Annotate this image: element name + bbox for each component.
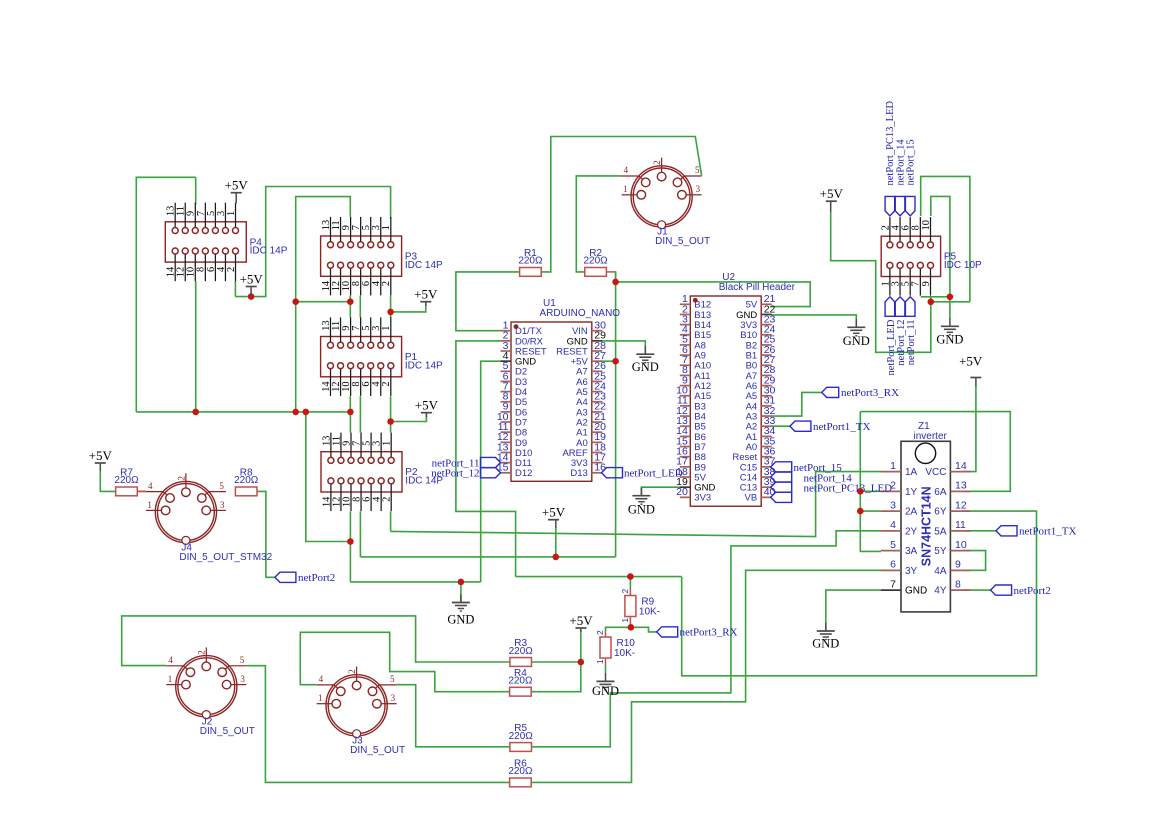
svg-text:3: 3	[696, 184, 701, 194]
wire R10 bottom	[605, 665, 607, 674]
svg-text:220Ω: 220Ω	[508, 766, 533, 777]
wire R9 bottom junction	[629, 624, 631, 628]
junction at 295.7,411.9	[292, 409, 299, 416]
svg-text:4Y: 4Y	[934, 586, 947, 597]
resistor R6	[508, 759, 533, 787]
+5V below U1 stem	[555, 520, 557, 528]
svg-text:netPort1_TX: netPort1_TX	[1019, 526, 1076, 538]
wire R2 left to J1 pin4	[576, 176, 621, 272]
wire to netPort3_RX flag	[631, 627, 657, 632]
svg-text:+5V: +5V	[820, 186, 844, 201]
svg-text:5Y: 5Y	[934, 546, 947, 557]
svg-text:6A: 6A	[934, 487, 947, 498]
svg-text:6: 6	[890, 559, 896, 571]
junction at 350.4,541.5	[347, 538, 354, 545]
ground (left rail)	[447, 594, 474, 626]
wire rail-down leg	[306, 412, 351, 542]
resistor R7	[114, 468, 139, 496]
svg-text:DIN_5_OUT: DIN_5_OUT	[655, 236, 710, 247]
+5V below P4	[240, 271, 264, 286]
net flag netPort_14 at U2 pin38	[771, 472, 792, 482]
wire P5 pin8 riser	[921, 176, 970, 301]
svg-text:GND: GND	[843, 334, 870, 348]
net flag P5 bottom pin 3	[895, 297, 905, 317]
svg-text:10: 10	[955, 539, 967, 551]
svg-text:netPort2: netPort2	[298, 572, 335, 584]
svg-text:2: 2	[595, 630, 605, 635]
junction at 350.4,411.9	[347, 409, 354, 416]
svg-text:5: 5	[890, 539, 896, 551]
connector P1 IDC 14P	[321, 317, 443, 396]
svg-text:1: 1	[381, 326, 392, 331]
junction at 460.9,581.9	[458, 579, 465, 586]
svg-text:2: 2	[382, 497, 393, 502]
svg-text:netPort_PC13_LED: netPort_PC13_LED	[804, 483, 893, 495]
svg-text:netPort_12: netPort_12	[431, 468, 479, 480]
+5V above P4 stem	[235, 194, 237, 204]
net flag netPort2 at J4	[275, 572, 296, 582]
+5V at P3	[414, 287, 438, 302]
wire P4 pin2 down	[234, 281, 236, 297]
resistor lead R7 right	[138, 490, 146, 492]
svg-text:D12: D12	[515, 468, 532, 479]
svg-text:3: 3	[890, 499, 896, 511]
wire P4 pin10 to rail	[195, 281, 197, 412]
+5V at R7 stem	[99, 464, 101, 471]
wire netPort3_RX rail	[516, 576, 682, 578]
net flag at U2 pin40	[771, 492, 792, 502]
svg-text:4: 4	[890, 519, 896, 531]
wire netPort3_RX loop right	[682, 511, 1037, 676]
resistor R2	[584, 248, 609, 276]
junction at 630.4,576.6	[627, 573, 634, 580]
wire P2 pin8 +5V leg	[359, 511, 361, 557]
resistor R3	[509, 638, 534, 666]
svg-text:12: 12	[955, 499, 967, 511]
wire U2 pin19 GND	[641, 487, 681, 496]
connector P3 IDC 14P	[321, 217, 443, 296]
svg-text:+5V: +5V	[225, 178, 249, 193]
svg-text:2Y: 2Y	[905, 526, 918, 537]
svg-text:DIN_5_OUT: DIN_5_OUT	[350, 745, 405, 756]
svg-text:11: 11	[955, 519, 966, 531]
svg-text:1: 1	[890, 460, 896, 472]
connector P5 IDC 10P	[880, 217, 982, 296]
svg-text:+5V: +5V	[414, 287, 438, 302]
svg-text:3Y: 3Y	[905, 566, 918, 577]
IC U1 ARDUINO_NANO	[497, 298, 620, 482]
resistor R1	[518, 248, 543, 276]
wire +5V tap P3	[391, 304, 426, 312]
junction at 195.7,411.9	[192, 409, 199, 416]
svg-text:VB: VB	[745, 493, 758, 504]
svg-text:20: 20	[676, 486, 688, 498]
svg-text:2A: 2A	[905, 507, 918, 518]
wire netPC13 top loop	[860, 412, 1010, 492]
junction at 295.7,301.7	[292, 298, 299, 305]
wire Z1 5A to netPort1_TX	[964, 530, 997, 532]
net flag netPort_12 at U1 pin15	[481, 468, 501, 478]
junction at 390.6,421.5	[387, 418, 394, 425]
net flag netPort3_RX at R9	[657, 627, 678, 637]
svg-text:inverter: inverter	[914, 431, 948, 442]
wire +5V riser right of U1	[615, 273, 617, 557]
wire P4 pin9 stub riser	[195, 177, 197, 204]
svg-text:Black Pill Header: Black Pill Header	[719, 282, 796, 293]
svg-text:1: 1	[595, 659, 605, 664]
svg-text:DIN_5_OUT_STM32: DIN_5_OUT_STM32	[179, 552, 272, 563]
junction at 630.9,627.3	[628, 624, 635, 631]
svg-text:3: 3	[220, 500, 225, 510]
svg-text:1: 1	[147, 500, 152, 510]
wire P3 pin8 to P1 pin7	[359, 296, 361, 318]
svg-text:5: 5	[240, 655, 245, 665]
+5V above P4	[225, 178, 249, 193]
IC Z1 inverter SN74HCT14N	[881, 421, 970, 612]
wire J2 pin4 to R3	[122, 616, 510, 666]
wire P1 pin8 to P2 pin7	[359, 396, 361, 432]
wire P2 pin9 from rail	[349, 412, 351, 433]
wire R8 to netPort2	[257, 491, 275, 577]
ground Z1 pin7	[812, 623, 839, 651]
resistor lead R2 right	[606, 271, 614, 273]
wire P5 pin9 net	[931, 297, 970, 302]
junction at 615.6,281.9	[612, 279, 619, 286]
svg-text:4: 4	[168, 655, 173, 665]
wire long diagonal net	[391, 472, 881, 537]
svg-text:1: 1	[382, 441, 393, 446]
+5V above Z1	[959, 354, 983, 369]
svg-text:3A: 3A	[905, 546, 918, 557]
svg-text:GND: GND	[936, 333, 963, 347]
wire R7 to J4 pin4	[138, 490, 146, 492]
svg-text:GND: GND	[812, 637, 839, 651]
svg-text:220Ω: 220Ω	[114, 475, 139, 486]
wire J3 pin5 to R5	[397, 685, 510, 747]
svg-text:10K-: 10K-	[639, 607, 660, 618]
svg-text:GND: GND	[592, 684, 619, 698]
wire rail GND-row	[136, 411, 350, 413]
wire +5V to R7	[100, 471, 115, 492]
+5V below U1	[542, 505, 566, 520]
resistor lead R9 bottom	[629, 617, 631, 624]
svg-text:ARDUINO_NANO: ARDUINO_NANO	[540, 308, 621, 319]
svg-text:netPort_15: netPort_15	[906, 139, 917, 185]
svg-text:5: 5	[390, 674, 395, 684]
IC U2 Black Pill Header	[676, 272, 796, 506]
+5V at P1 stem	[425, 413, 427, 417]
wire P3 pin2 to P1 pin1	[390, 296, 392, 318]
svg-text:1: 1	[620, 618, 630, 623]
svg-text:VCC: VCC	[925, 467, 946, 478]
svg-text:2: 2	[226, 267, 237, 272]
svg-text:DIN_5_OUT: DIN_5_OUT	[200, 726, 255, 737]
wire P5 GND stem	[949, 297, 951, 319]
svg-text:4A: 4A	[934, 566, 947, 577]
wire U2 pin22 GND	[771, 315, 856, 327]
wire GND leg down	[349, 542, 351, 582]
svg-text:7: 7	[890, 578, 896, 590]
wire +5V stem under U1	[555, 528, 557, 557]
wire lateral P3-P1	[296, 301, 351, 303]
svg-text:1: 1	[381, 225, 392, 230]
svg-text:2: 2	[176, 476, 186, 481]
wire P5 pin7 to GND	[921, 296, 950, 298]
connector J4 DIN_5_OUT_STM32	[146, 473, 273, 563]
junction at 251.1,296.6	[248, 293, 255, 300]
svg-text:4: 4	[148, 481, 153, 491]
+5V at R3	[569, 613, 593, 628]
svg-text:5: 5	[695, 165, 700, 175]
wire Z1 VCC +5V	[964, 386, 976, 472]
wire U1 pin4 GND	[481, 361, 501, 582]
+5V at P1	[415, 398, 439, 413]
resistor R10	[595, 630, 635, 664]
wire R6 left to J2 pin5	[246, 666, 510, 783]
svg-text:5: 5	[219, 481, 224, 491]
svg-text:GND: GND	[632, 360, 659, 374]
resistor lead R10 top	[605, 632, 607, 638]
svg-text:220Ω: 220Ω	[234, 475, 259, 486]
svg-text:netPort3_RX: netPort3_RX	[680, 627, 738, 639]
connector P2 IDC 14P	[321, 433, 443, 512]
ground R10	[592, 673, 619, 698]
wire +5V row under U1	[360, 556, 615, 558]
svg-text:U2: U2	[722, 272, 735, 283]
svg-text:16: 16	[594, 462, 606, 474]
wire U2 A3 to netPort3_RX	[771, 392, 822, 416]
wire P5 pin10 riser	[931, 196, 950, 296]
net flag P5 top pin 2	[885, 196, 895, 216]
wire Z1 4Y to netPort2	[964, 589, 991, 591]
svg-text:3V3: 3V3	[694, 493, 711, 504]
wire P2 pin10 down	[349, 511, 351, 541]
svg-text:1A: 1A	[905, 467, 918, 478]
wire R6 to Z1 3Y	[531, 570, 881, 782]
connector J1 DIN_5_OUT	[622, 158, 711, 248]
resistor R8	[234, 468, 259, 496]
svg-text:GND: GND	[905, 586, 927, 597]
connector J2 DIN_5_OUT	[166, 647, 255, 737]
wire R3 to R4 right	[531, 662, 581, 692]
net flag netPort1_TX at U2 A2	[790, 421, 811, 431]
junction at 580.8,662	[578, 659, 585, 666]
wire +5V tap P1	[391, 415, 427, 422]
+5V at P5 stem	[830, 202, 832, 212]
svg-text:8: 8	[955, 578, 961, 590]
svg-text:10: 10	[921, 220, 932, 230]
junction at 860.3,511.1	[857, 508, 864, 515]
svg-text:1Y: 1Y	[905, 487, 918, 498]
+5V above Z1 stem	[975, 378, 977, 387]
svg-text:+5V: +5V	[542, 505, 566, 520]
net flag netPort_11 at U1 pin14	[481, 457, 501, 467]
svg-text:netPort_11: netPort_11	[906, 320, 917, 366]
svg-text:1: 1	[226, 211, 237, 216]
wire U1 pin2 net	[456, 341, 516, 577]
svg-text:GND: GND	[447, 613, 474, 627]
svg-text:2: 2	[381, 382, 392, 387]
wire R9 to R10	[606, 627, 631, 631]
svg-text:2: 2	[381, 281, 392, 286]
net flag netPort3_RX at U2 A3	[822, 387, 839, 397]
ground P5	[936, 318, 963, 346]
svg-text:2: 2	[652, 160, 662, 165]
net flag P5 bottom pin 1	[885, 297, 895, 317]
svg-text:15: 15	[497, 462, 509, 474]
net flag P5 bottom pin 5	[905, 297, 915, 317]
junction at 390.6,311.9	[387, 309, 394, 316]
junction at 860.3,491.3	[857, 488, 864, 495]
wire R4 left to J3 pin4	[300, 632, 509, 691]
svg-text:3: 3	[240, 674, 245, 684]
junction at 350.3,301.7	[347, 298, 354, 305]
wire Z1 pin7 GND	[826, 590, 881, 631]
wire P3 pin9 up-left	[296, 197, 351, 412]
svg-text:10K-: 10K-	[614, 648, 635, 659]
+5V at R7	[89, 448, 113, 463]
svg-text:2: 2	[347, 669, 357, 674]
wire Z1 5Y to 4A	[964, 551, 986, 571]
svg-text:+5V: +5V	[89, 448, 113, 463]
net flag netPort_15 at U2 pin37	[771, 462, 792, 472]
svg-text:220Ω: 220Ω	[584, 256, 609, 267]
net flag P5 top pin 4	[895, 196, 905, 216]
svg-text:U1: U1	[543, 298, 556, 309]
svg-text:4: 4	[624, 165, 629, 175]
resistor R9	[620, 589, 660, 623]
wire U2 A2 to netPort1_TX	[771, 425, 790, 427]
junction at 949.9,296.8	[947, 294, 954, 301]
svg-text:netPort3_RX: netPort3_RX	[841, 387, 899, 399]
net flag netPort2 at Z1 4Y	[991, 585, 1012, 595]
connector P4 IDC 14P	[165, 203, 287, 282]
svg-text:2: 2	[197, 650, 207, 655]
net flag netPort_PC13_LED at U2 pin39	[771, 482, 792, 492]
resistor lead R9 top	[629, 588, 631, 596]
wire GND rail bottom	[350, 581, 480, 583]
wire +5V stem R3	[580, 630, 582, 662]
wire R1 to J1 pin5	[542, 137, 702, 272]
wire R9 top lead	[629, 577, 631, 588]
svg-text:9: 9	[955, 559, 961, 571]
junction at 615.6,361.2	[612, 358, 619, 365]
net flag netPort_LED at U1 pin16	[602, 468, 623, 478]
wire R2 to U2 5V	[615, 272, 810, 307]
wire U1 pin29 GND	[602, 341, 646, 354]
svg-text:+5V: +5V	[240, 271, 264, 286]
connector J3 DIN_5_OUT	[317, 667, 406, 757]
wire P3 pin10 to P1 pin9	[349, 296, 351, 318]
+5V above Z1 bar	[970, 377, 981, 379]
+5V at R3 stem	[580, 629, 582, 632]
svg-text:netPort1_TX: netPort1_TX	[813, 421, 870, 433]
svg-text:GND: GND	[628, 503, 655, 517]
resistor R4	[508, 668, 533, 696]
svg-text:6Y: 6Y	[934, 507, 947, 518]
svg-text:2: 2	[620, 589, 630, 594]
+5V at P5	[820, 186, 844, 201]
svg-text:IDC 14P: IDC 14P	[405, 260, 443, 271]
wire R3 right +5V	[532, 661, 581, 663]
svg-text:SN74HCT14N: SN74HCT14N	[920, 486, 934, 566]
junction at 555.8,556.9	[553, 554, 560, 561]
svg-text:14: 14	[955, 460, 967, 472]
wire P2 pin2 down	[390, 511, 392, 531]
svg-text:netPort_LED: netPort_LED	[624, 468, 683, 480]
wire P1 pin2 to P2 pin1	[390, 396, 392, 432]
wire Z1 1Y	[860, 490, 881, 492]
wire Z1 2A	[860, 510, 881, 512]
net flag P5 top pin 6	[905, 196, 915, 216]
svg-text:netPort2: netPort2	[1014, 585, 1051, 597]
svg-text:40: 40	[764, 486, 776, 498]
svg-text:1: 1	[318, 693, 323, 703]
svg-text:+5V: +5V	[415, 398, 439, 413]
svg-text:220Ω: 220Ω	[518, 256, 543, 267]
wire netPC13 vertical	[860, 412, 881, 552]
junction at 930.8,301.8	[928, 299, 935, 306]
ground U1 pin29	[632, 346, 659, 374]
svg-text:IDC 14P: IDC 14P	[250, 246, 288, 257]
wire +5V to P5	[831, 211, 931, 352]
+5V below P4 stem	[250, 287, 252, 296]
svg-text:IDC 10P: IDC 10P	[944, 260, 982, 271]
svg-text:220Ω: 220Ω	[509, 646, 534, 657]
svg-text:D13: D13	[570, 468, 587, 479]
wire GND stem	[460, 582, 462, 603]
wire U1 pin1 to R1	[456, 272, 520, 331]
+5V at P3 stem	[425, 302, 427, 306]
wire R5 to Z1 2Y	[532, 531, 881, 747]
wire P4 pin9 to rail	[136, 177, 195, 412]
resistor R5	[509, 723, 534, 751]
svg-text:9: 9	[921, 281, 932, 286]
ground U2 pin22	[843, 319, 870, 348]
svg-text:13: 13	[955, 480, 967, 492]
junction at 305.8,411.9	[303, 409, 310, 416]
svg-text:+5V: +5V	[569, 613, 593, 628]
wire P1 pin10 to rail	[349, 396, 351, 412]
svg-text:4: 4	[319, 674, 324, 684]
ground U2 pin19	[628, 488, 655, 517]
wire U1 pin27 +5V	[602, 360, 616, 362]
svg-text:1: 1	[623, 184, 628, 194]
svg-text:3: 3	[391, 693, 396, 703]
wire +5V below P4	[235, 187, 390, 297]
svg-text:+5V: +5V	[959, 354, 983, 369]
net flag netPort1_TX at Z1 5A	[996, 526, 1017, 536]
svg-text:220Ω: 220Ω	[509, 731, 534, 742]
resistor lead R10 bottom	[605, 658, 607, 665]
svg-text:5A: 5A	[934, 526, 947, 537]
svg-text:220Ω: 220Ω	[508, 676, 533, 687]
svg-text:IDC 14P: IDC 14P	[405, 360, 443, 371]
svg-text:1: 1	[168, 674, 173, 684]
